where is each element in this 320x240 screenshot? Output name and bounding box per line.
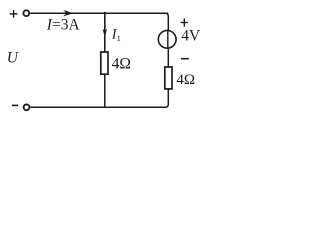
wire source to resistor right [167, 48, 169, 67]
svg-text:4V: 4V [181, 28, 201, 45]
svg-text:4Ω: 4Ω [112, 55, 131, 72]
current arrow I1 [103, 29, 108, 38]
svg-text:U: U [7, 49, 20, 66]
terminal top-left [23, 10, 29, 16]
wire middle branch [104, 12, 106, 52]
current arrow I [64, 10, 73, 16]
svg-text:4Ω: 4Ω [176, 72, 195, 88]
svg-text:I=3A: I=3A [46, 17, 81, 34]
label + of source [181, 18, 188, 26]
terminal bottom-left [24, 104, 30, 110]
resistor R2 4ohm right [165, 67, 172, 89]
wire top [30, 12, 168, 14]
wire bottom [30, 89, 168, 107]
wire middle branch lower [104, 74, 106, 107]
plus polarity mark of U [10, 10, 18, 18]
minus polarity mark of U [12, 104, 18, 106]
label - of source [181, 58, 189, 60]
voltage source US 4V [158, 30, 176, 49]
resistor R1 4ohm middle [101, 52, 108, 74]
wire right branch top [165, 13, 168, 30]
